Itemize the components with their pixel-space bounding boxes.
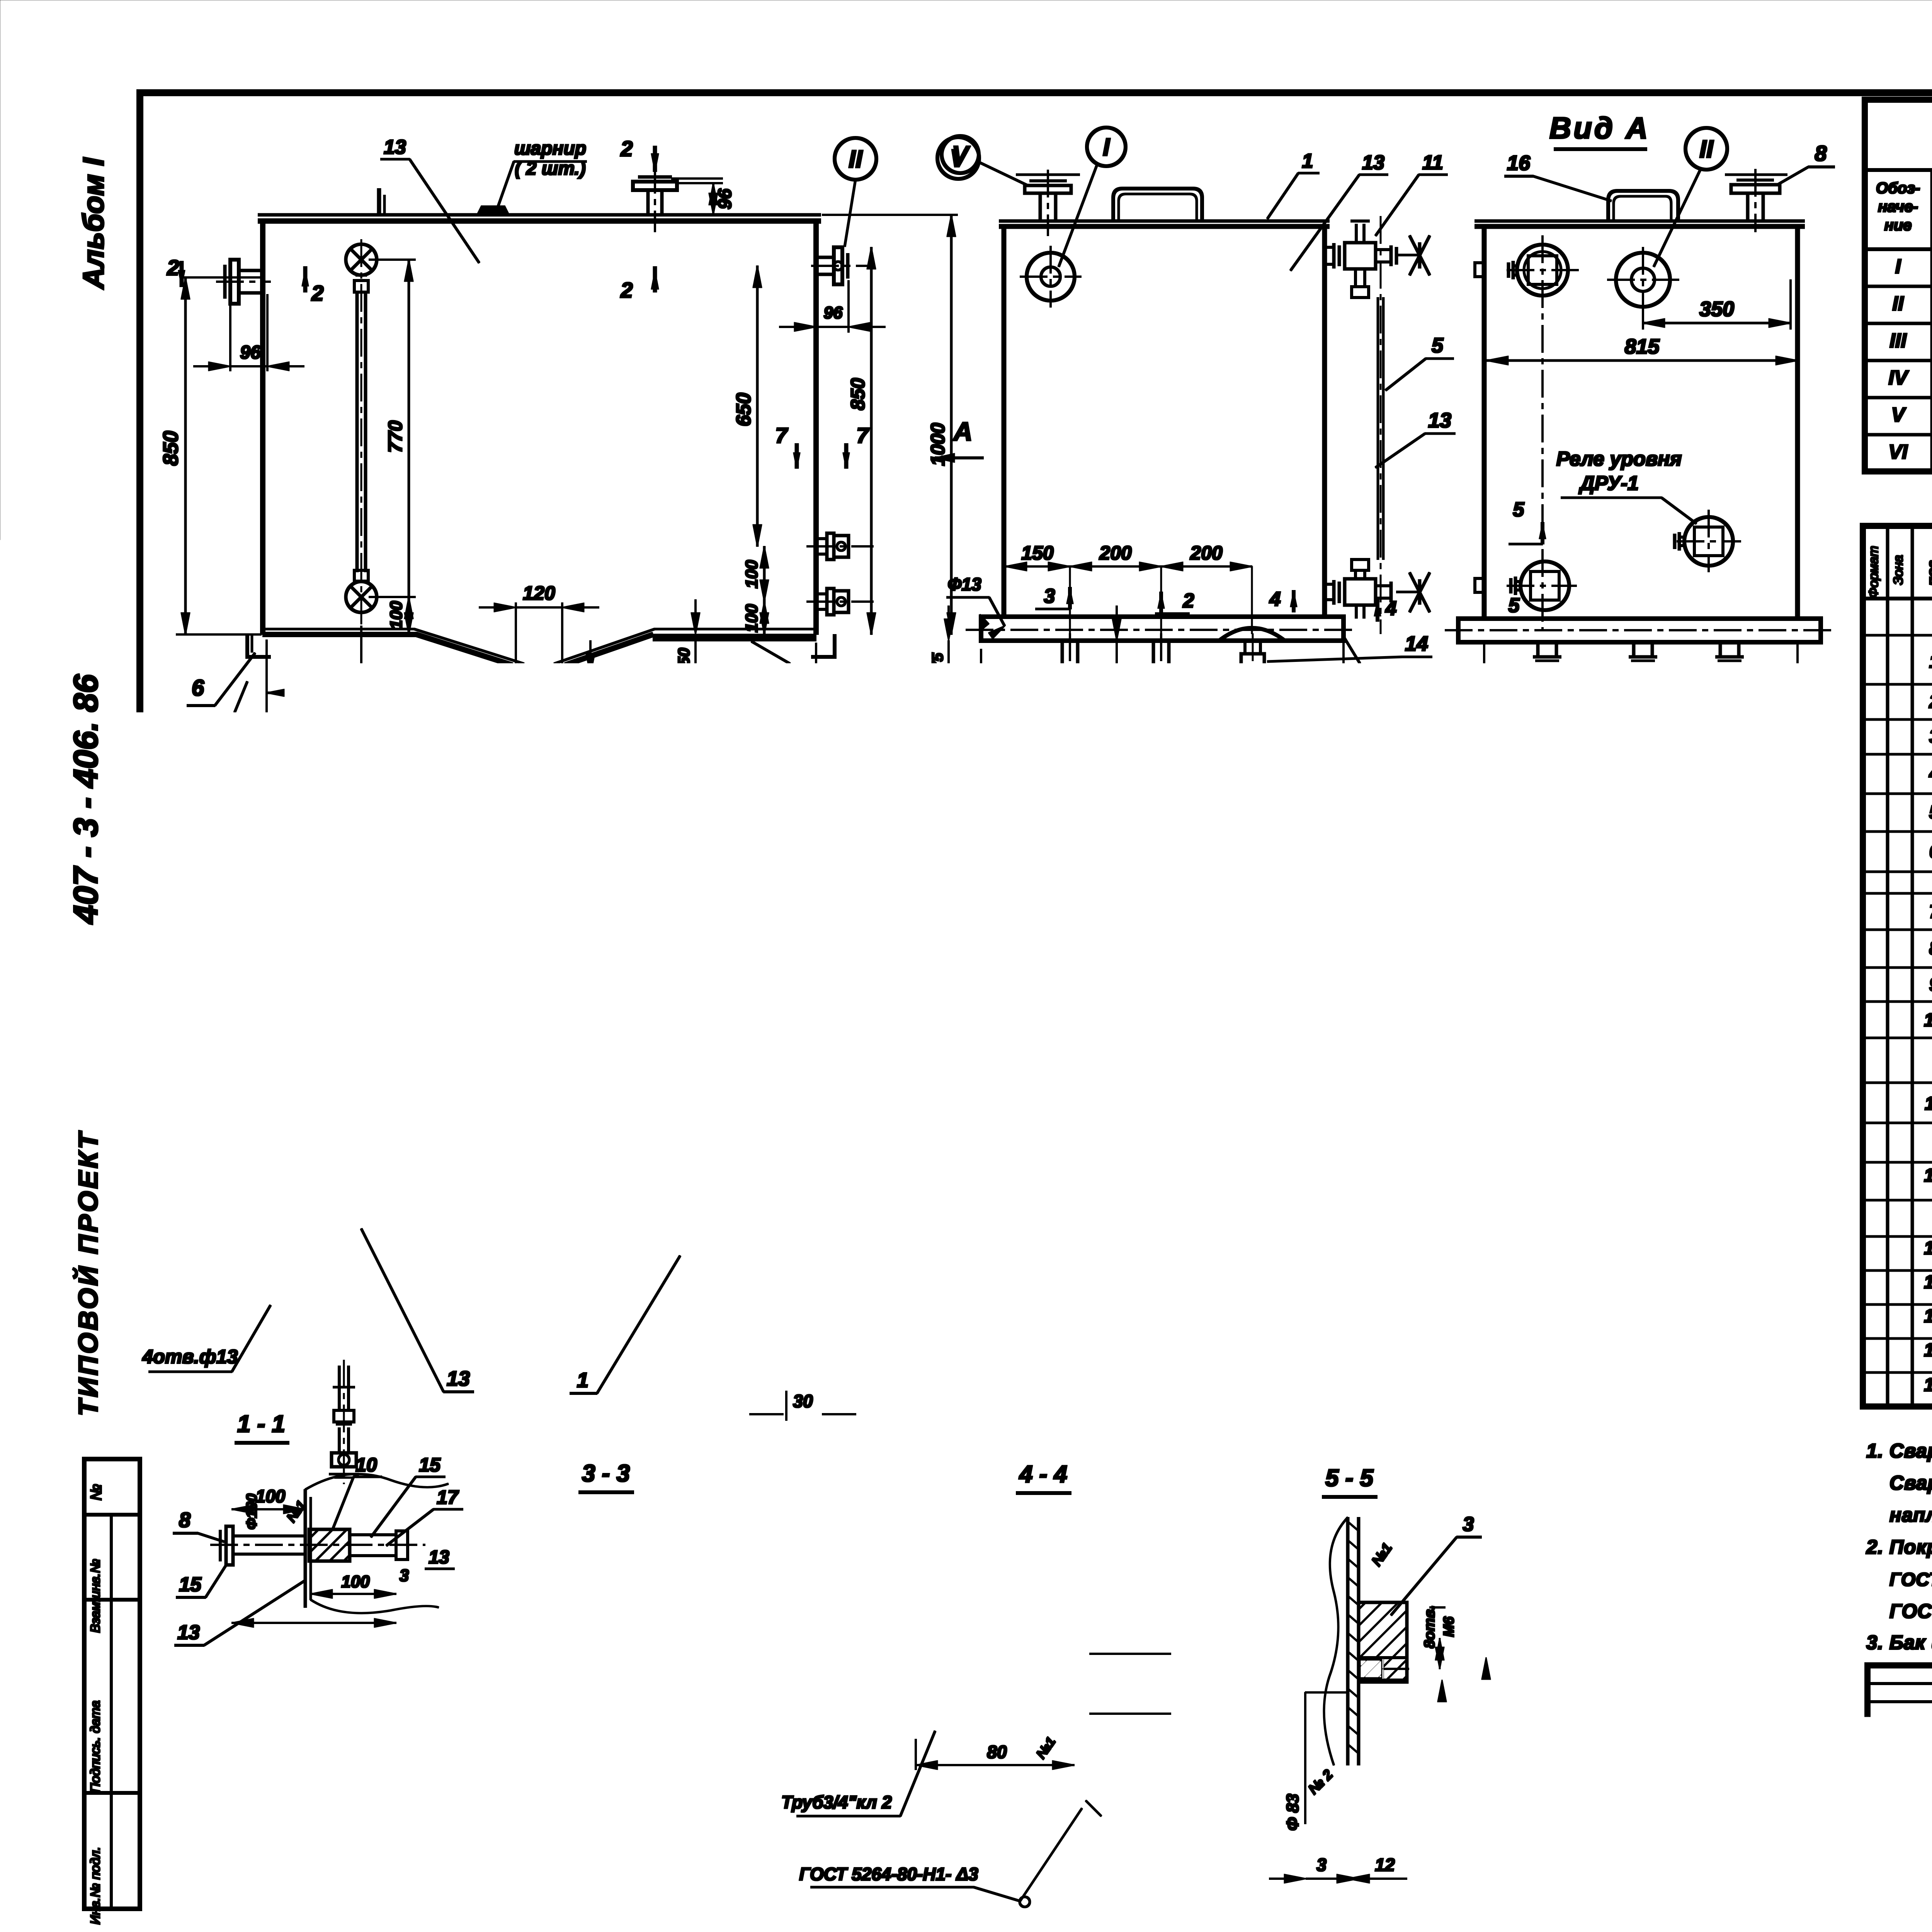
- svg-text:Труб3/4"кл 2: Труб3/4"кл 2: [781, 1792, 892, 1812]
- section 3-3 lower pipe: [633, 1787, 635, 1859]
- margin stamp column: [84, 1459, 140, 1909]
- section 7-7 angle: [1121, 1252, 1124, 1337]
- side view support 1: [1061, 641, 1064, 675]
- section 6-6 plate: [1008, 1042, 1222, 1045]
- svg-text:350: 350: [714, 1008, 747, 1030]
- svg-text:3. Бак испытать на герметич: 3. Бак испытать на герметичность керосин…: [1866, 1631, 1932, 1653]
- dim 100 gauge bottom: [369, 596, 415, 598]
- section 1-1 flange pipe: [232, 1535, 305, 1537]
- plan view inner hatch rect: [369, 1041, 415, 1134]
- svg-text:110: 110: [587, 681, 607, 710]
- label circled II view A: [1685, 128, 1727, 170]
- svg-text:920: 920: [889, 1071, 910, 1101]
- svg-text:870: 870: [858, 1067, 878, 1097]
- section 1-1 coupling: [309, 1529, 350, 1561]
- label 25 base right: [1343, 643, 1344, 757]
- svg-text:Н.контр.: Н.контр.: [1873, 1773, 1932, 1790]
- svg-text:4: 4: [1929, 764, 1932, 784]
- svg-text:11: 11: [1925, 1094, 1932, 1114]
- privyazan table: [1582, 1768, 1867, 1905]
- svg-text:III: III: [1889, 330, 1907, 352]
- svg-text:7 - 7: 7 - 7: [1082, 1173, 1131, 1200]
- svg-text:Реле уровня: Реле уровня: [1556, 448, 1682, 470]
- svg-text:350: 350: [1699, 298, 1734, 321]
- svg-text:190: 190: [459, 666, 495, 690]
- section 3-3 blob outline: [479, 1648, 746, 1793]
- svg-text:640: 640: [1526, 1063, 1557, 1083]
- svg-text:14: 14: [1405, 632, 1428, 655]
- svg-text:2. Покрытие поверхностей: вн: 2. Покрытие поверхностей: внутренних - б…: [1866, 1536, 1932, 1558]
- plan view breather circles: [624, 949, 674, 998]
- svg-text:б: б: [1423, 731, 1437, 756]
- svg-text:9: 9: [795, 1623, 806, 1645]
- svg-text:1: 1: [144, 991, 155, 1013]
- svg-text:14: 14: [607, 1876, 630, 1899]
- view A bottom dims: [1483, 645, 1485, 718]
- view A top handle: [1608, 191, 1678, 221]
- svg-text:Вид А: Вид А: [1549, 111, 1650, 145]
- plan view lid rectangle: [269, 920, 819, 1366]
- svg-text:3: 3: [1221, 1063, 1238, 1071]
- svg-text:850: 850: [159, 431, 182, 466]
- svg-text:Взам.инв.№: Взам.инв.№: [88, 1559, 103, 1633]
- svg-text:ДЕТАЛЬ поз.2: ДЕТАЛЬ поз.2: [1472, 795, 1653, 821]
- svg-text:40: 40: [1440, 1029, 1459, 1047]
- svg-text:10: 10: [355, 1454, 377, 1476]
- plan view dim 30: [786, 1413, 819, 1415]
- svg-text:75: 75: [789, 1811, 808, 1830]
- svg-text:8: 8: [1929, 938, 1932, 959]
- section 3-3 bottom flange: [591, 1857, 696, 1860]
- svg-text:3: 3: [282, 1884, 291, 1901]
- svg-text:ДРУ-1: ДРУ-1: [1578, 472, 1639, 495]
- svg-text:Ф 115: Ф 115: [1504, 1818, 1523, 1864]
- svg-text:30: 30: [793, 1391, 813, 1411]
- svg-text:I: I: [170, 831, 178, 859]
- svg-text:5: 5: [1929, 802, 1932, 823]
- section mark 2-2 top: [653, 146, 657, 172]
- svg-text:Ф 83: Ф 83: [1283, 1794, 1302, 1831]
- svg-text:7: 7: [775, 423, 788, 447]
- dim 110 drain: [545, 675, 597, 676]
- svg-text:200: 200: [1099, 542, 1132, 564]
- svg-text:3: 3: [266, 1867, 275, 1886]
- front view right flange II stub: [816, 256, 834, 259]
- svg-text:9: 9: [1929, 975, 1932, 995]
- svg-text:ДЕТАЛЬ поз.1: ДЕТАЛЬ поз.1: [1434, 1107, 1615, 1133]
- svg-text:3: 3: [1044, 585, 1055, 607]
- detail pos 2 dims: [1617, 894, 1647, 895]
- front view right lower fitting 2: [816, 593, 827, 595]
- svg-text:120: 120: [523, 582, 555, 604]
- svg-text:100: 100: [552, 944, 570, 971]
- label circled II top right: [835, 138, 876, 180]
- front view left corner angle p6: [247, 634, 270, 657]
- svg-text:60: 60: [1388, 1378, 1406, 1396]
- svg-text:I: I: [1895, 255, 1901, 278]
- svg-text:3: 3: [1221, 1038, 1238, 1047]
- svg-text:ГИП тех.: ГИП тех.: [1873, 1823, 1932, 1840]
- svg-text:1: 1: [577, 1369, 588, 1392]
- side view dim row 150 200 200: [1005, 566, 1252, 567]
- side view gauge valve top p11: [1325, 246, 1334, 248]
- svg-text:ГИП: ГИП: [1873, 1798, 1905, 1815]
- svg-text:450: 450: [366, 1003, 399, 1025]
- flange table grid: [1865, 168, 1932, 172]
- svg-text:7: 7: [856, 423, 869, 447]
- side view drain needle valve: [1245, 641, 1260, 654]
- title block signature grid: [1867, 1682, 1932, 1685]
- svg-text:15: 15: [419, 1454, 441, 1476]
- svg-text:6: 6: [1929, 842, 1932, 862]
- svg-text:100: 100: [256, 1714, 286, 1734]
- svg-text:130: 130: [370, 1065, 388, 1092]
- dim 350 view A: [1642, 309, 1644, 329]
- svg-text:Альбом I: Альбом I: [77, 157, 110, 290]
- svg-text:2: 2: [620, 136, 633, 161]
- label circled I side view: [1087, 128, 1126, 166]
- front view tank outline: [258, 214, 821, 216]
- view A level relay circle: [1684, 517, 1733, 566]
- view A tank outline: [1475, 220, 1804, 223]
- svg-text:12: 12: [1375, 1855, 1395, 1875]
- section 2-2 wall: [285, 1719, 287, 1882]
- plan view dim 350 breather: [649, 1032, 811, 1034]
- svg-text:6: 6: [192, 675, 204, 701]
- svg-text:16: 16: [1924, 1340, 1932, 1361]
- svg-text:шарнир: шарнир: [514, 138, 586, 159]
- plan view left flange: [232, 965, 269, 967]
- svg-text:3 - 3: 3 - 3: [582, 1460, 630, 1487]
- svg-text:Гл.спец.: Гл.спец.: [1873, 1748, 1932, 1765]
- svg-text:815: 815: [1624, 335, 1660, 358]
- side view drain dome: [1219, 628, 1285, 641]
- svg-text:100: 100: [742, 560, 761, 588]
- svg-text:A: A: [952, 417, 972, 446]
- section 3-3 dims right: [738, 1657, 819, 1658]
- dim 815 view A: [1486, 360, 1798, 362]
- svg-text:4: 4: [1385, 597, 1397, 620]
- svg-text:96: 96: [240, 342, 261, 363]
- section 5-5 boss block: [1359, 1602, 1407, 1682]
- plan view right fittings: [819, 997, 842, 1019]
- section 3-3 strainer pipe: [626, 1658, 657, 1708]
- svg-text:ТИПОВОЙ ПРОЕКТ: ТИПОВОЙ ПРОЕКТ: [72, 1130, 103, 1416]
- plan view dims inside door: [317, 1027, 448, 1029]
- label circled V side view: [942, 136, 979, 173]
- svg-text:S =3мм: S =3мм: [1342, 900, 1408, 921]
- parts table header: [1863, 597, 1932, 600]
- front view bottom drain: [511, 678, 584, 680]
- plan view corner lugs: [269, 898, 294, 920]
- dim 50 right dip: [695, 634, 696, 672]
- svg-text:25: 25: [847, 879, 866, 898]
- svg-text:3: 3: [1057, 1513, 1068, 1536]
- svg-text:96: 96: [715, 189, 735, 209]
- svg-text:наплывов и перерывов.: наплывов и перерывов.: [1889, 1504, 1932, 1526]
- dim 850 right: [871, 247, 872, 634]
- section 3-3 coupling: [621, 1716, 662, 1750]
- svg-text:350: 350: [1617, 1162, 1648, 1183]
- section 6-6 bottom dims: [1007, 1061, 1009, 1096]
- svg-text:500: 500: [1646, 928, 1666, 957]
- svg-text:407 - 3 - 406. 86: 407 - 3 - 406. 86: [66, 674, 105, 925]
- svg-text:Нач.отд.: Нач.отд.: [1873, 1723, 1932, 1740]
- plan view door hinges: [490, 997, 512, 1022]
- svg-text:40: 40: [1622, 1029, 1641, 1047]
- svg-text:580: 580: [1526, 1008, 1557, 1028]
- svg-text:I: I: [1103, 133, 1110, 161]
- svg-text:3: 3: [473, 1759, 492, 1768]
- svg-text:Обоз-: Обоз-: [1876, 180, 1920, 197]
- svg-text:100: 100: [256, 1486, 286, 1506]
- section 3-3 lid plate: [475, 1776, 734, 1779]
- svg-text:13: 13: [447, 1367, 470, 1390]
- svg-text:100: 100: [160, 922, 178, 949]
- svg-text:5: 5: [1513, 498, 1525, 521]
- side view base channel: [981, 617, 1344, 641]
- svg-text:11: 11: [1422, 151, 1443, 174]
- svg-text:300: 300: [1071, 1104, 1101, 1124]
- svg-text:420: 420: [1615, 928, 1635, 958]
- svg-text:13: 13: [643, 1623, 665, 1645]
- dim 96 left flange: [230, 305, 231, 371]
- svg-text:Ф 46: Ф 46: [1517, 1165, 1560, 1187]
- svg-text:7: 7: [1929, 902, 1932, 922]
- svg-text:5 - 5: 5 - 5: [1325, 1465, 1374, 1492]
- svg-text:40: 40: [789, 1740, 808, 1759]
- section 3-3 F100: [591, 1831, 734, 1832]
- svg-text:Ф 95: Ф 95: [1464, 1827, 1483, 1864]
- svg-text:200: 200: [1190, 542, 1223, 564]
- svg-text:Зона: Зона: [1891, 555, 1906, 585]
- svg-text:150: 150: [1021, 542, 1054, 564]
- svg-text:5: 5: [290, 1867, 299, 1886]
- plan view dashed tank wall: [282, 928, 807, 1357]
- view A lower left flange circle: [1520, 561, 1569, 610]
- svg-text:96: 96: [1096, 675, 1114, 694]
- dim 120 drain: [515, 603, 517, 668]
- svg-text:IV: IV: [1888, 367, 1909, 389]
- section 3-3 dim 70: [560, 1716, 561, 1777]
- svg-text:100: 100: [1687, 1207, 1706, 1235]
- parts table columns: [1886, 526, 1889, 1406]
- svg-text:3: 3: [1929, 726, 1932, 747]
- svg-text:150: 150: [1670, 686, 1703, 709]
- svg-text:Инв. №: Инв. №: [1589, 1885, 1651, 1904]
- parts table frame: [1863, 526, 1932, 1406]
- svg-text:16: 16: [1507, 151, 1531, 175]
- svg-text:V: V: [952, 141, 971, 168]
- side view flange circle I: [1027, 253, 1075, 301]
- title block frame: [1867, 1665, 1932, 1905]
- section 2-2 coupling: [255, 1774, 286, 1804]
- svg-text:815: 815: [523, 1094, 543, 1124]
- svg-text:Ф 34: Ф 34: [1105, 1655, 1124, 1692]
- svg-text:15: 15: [179, 1573, 202, 1596]
- svg-text:8: 8: [1815, 141, 1827, 165]
- level gauge: [346, 244, 377, 275]
- front view bottom dims: [266, 640, 267, 808]
- svg-text:6 - 6: 6 - 6: [1089, 876, 1137, 903]
- svg-text:Привязан: Привязан: [1596, 1784, 1685, 1805]
- svg-text:770: 770: [384, 420, 406, 453]
- section 4-4 pipe: [949, 1649, 1074, 1652]
- svg-text:13: 13: [849, 671, 873, 696]
- svg-text:15: 15: [1924, 1306, 1932, 1327]
- svg-text:2 - 2: 2 - 2: [235, 1659, 284, 1685]
- svg-text:ГОСТ 14923-78, серозеленый Ф: ГОСТ 14923-78, серозеленый ФНП.: [1889, 1600, 1932, 1622]
- svg-text:V: V: [689, 881, 708, 909]
- svg-text:6: 6: [433, 1050, 444, 1073]
- label circled V top right corner: [937, 137, 979, 179]
- svg-text:8отв.: 8отв.: [1422, 1605, 1438, 1648]
- svg-text:VI: VI: [1888, 441, 1908, 463]
- svg-text:1300: 1300: [512, 769, 562, 794]
- svg-text:Ф 100: Ф 100: [1143, 1656, 1163, 1705]
- label circled VI: [1371, 672, 1412, 712]
- svg-text:100: 100: [387, 601, 406, 629]
- svg-text:3: 3: [1150, 1317, 1167, 1326]
- side view flange V top left: [1039, 193, 1042, 221]
- svg-text:170: 170: [333, 1120, 363, 1140]
- svg-text:1315: 1315: [1502, 1410, 1545, 1432]
- svg-text:13: 13: [1362, 151, 1384, 174]
- svg-text:3: 3: [400, 1566, 409, 1585]
- svg-text:200: 200: [397, 1068, 416, 1097]
- svg-text:15: 15: [179, 1838, 202, 1861]
- svg-text:460: 460: [1442, 1376, 1472, 1396]
- svg-text:13: 13: [997, 1331, 1019, 1353]
- svg-text:V: V: [1891, 404, 1906, 426]
- svg-text:12: 12: [1924, 1165, 1932, 1186]
- dim 96 support: [1116, 641, 1117, 681]
- svg-text:№: №: [88, 1484, 105, 1500]
- svg-text:Ф 100: Ф 100: [674, 1808, 723, 1828]
- svg-text:13: 13: [997, 1513, 1019, 1536]
- svg-text:2: 2: [167, 255, 179, 280]
- label circled II plan: [900, 1159, 940, 1199]
- section 6-6 dims: [1007, 1002, 1009, 1040]
- svg-text:Ф100: Ф100: [310, 1780, 327, 1818]
- svg-text:2: 2: [1183, 590, 1194, 612]
- detail pos 1 plate: [1384, 1203, 1662, 1373]
- front view top stub pin: [378, 189, 381, 215]
- svg-text:96: 96: [824, 303, 843, 322]
- svg-text:13: 13: [1924, 1238, 1932, 1259]
- svg-text:8: 8: [179, 1756, 190, 1779]
- svg-text:13: 13: [978, 1022, 1000, 1044]
- svg-text:200: 200: [296, 666, 332, 690]
- svg-text:Инв.№ подл.: Инв.№ подл.: [88, 1847, 103, 1925]
- svg-text:75: 75: [929, 653, 946, 670]
- label circled I bottom left: [152, 838, 194, 879]
- plan view drain below: [338, 1366, 340, 1410]
- side view top handle: [1113, 189, 1202, 221]
- view A flange 8: [1747, 193, 1749, 221]
- svg-text:Подпись. дата: Подпись. дата: [88, 1701, 103, 1793]
- dim 75 left base: [948, 641, 949, 681]
- svg-text:II: II: [1699, 135, 1714, 163]
- detail pos 1 dims: [1332, 1202, 1381, 1204]
- svg-text:17: 17: [437, 1486, 459, 1508]
- section 2-2 flange pipe: [240, 1776, 286, 1779]
- svg-text:1: 1: [344, 974, 355, 996]
- svg-text:ГОСТ 5264-80-Н1- Δ3: ГОСТ 5264-80-Н1- Δ3: [799, 1864, 978, 1884]
- svg-text:13: 13: [837, 1647, 860, 1669]
- svg-text:920: 920: [1140, 758, 1175, 781]
- front view hinge: [478, 207, 508, 215]
- section 5-5 wall: [1347, 1517, 1349, 1765]
- dim 96 right flange: [815, 284, 817, 332]
- svg-text:5: 5: [1432, 334, 1444, 357]
- svg-text:13: 13: [1145, 1237, 1167, 1260]
- svg-text:13: 13: [225, 1702, 248, 1725]
- svg-text:90: 90: [789, 1680, 808, 1699]
- view A feet: [1538, 642, 1556, 657]
- section marks 7-7: [795, 444, 799, 468]
- svg-text:2: 2: [1929, 692, 1932, 712]
- svg-text:4: 4: [917, 1517, 929, 1539]
- dim 650 right: [757, 266, 759, 546]
- svg-text:25: 25: [1354, 730, 1378, 753]
- side view gauge valve bottom: [1352, 560, 1369, 570]
- svg-text:850: 850: [847, 378, 869, 410]
- svg-text:2: 2: [1188, 993, 1200, 1016]
- svg-text:650: 650: [733, 393, 755, 427]
- svg-text:5: 5: [1509, 594, 1520, 617]
- svg-text:Ф100: Ф100: [244, 1493, 260, 1529]
- svg-text:ГОСТ 901-78, красноватый ШХ.: ГОСТ 901-78, красноватый ШХ. К. ; наружн…: [1889, 1570, 1932, 1590]
- svg-text:М6: М6: [1441, 1616, 1457, 1637]
- svg-text:Ф13: Ф13: [947, 574, 981, 594]
- svg-text:II: II: [913, 1165, 927, 1193]
- front view tank bottom profile: [263, 634, 653, 672]
- svg-text:Ф 80: Ф 80: [1420, 1827, 1439, 1864]
- svg-text:100: 100: [742, 604, 761, 633]
- svg-text:Формат: Формат: [1866, 546, 1881, 598]
- dim 96 top flange: [677, 182, 723, 184]
- svg-text:70: 70: [539, 1737, 558, 1756]
- svg-text:4отв.ф13: 4отв.ф13: [142, 1346, 238, 1367]
- svg-text:13: 13: [429, 1547, 449, 1568]
- view A base channel: [1458, 619, 1821, 642]
- svg-text:ГОСТ5264-80-Т1-Δ3: ГОСТ5264-80-Т1-Δ3: [423, 1830, 568, 1847]
- svg-text:2: 2: [1187, 726, 1198, 748]
- front view left flange: [239, 269, 263, 272]
- side view tank outline: [999, 220, 1329, 223]
- dim 850 left: [182, 277, 261, 278]
- svg-text:3: 3: [1150, 1345, 1167, 1354]
- svg-text:50: 50: [675, 648, 693, 666]
- svg-text:3: 3: [1463, 1513, 1474, 1536]
- svg-text:6: 6: [553, 1049, 564, 1071]
- detail pos 2 square: [1469, 882, 1614, 1003]
- svg-text:40: 40: [1169, 1074, 1188, 1092]
- svg-text:600: 600: [1361, 1272, 1381, 1301]
- svg-text:наче-: наче-: [1878, 198, 1918, 215]
- svg-text:поз.: поз.: [1925, 556, 1932, 586]
- svg-text:400: 400: [321, 692, 358, 717]
- svg-text:II: II: [849, 145, 863, 173]
- svg-text:2: 2: [620, 278, 633, 302]
- dims 100 100 right: [764, 546, 765, 602]
- svg-text:17: 17: [528, 1624, 551, 1647]
- side view bottom dims: [1004, 692, 1006, 753]
- svg-text:8: 8: [179, 1509, 190, 1532]
- svg-text:28: 28: [967, 1594, 988, 1614]
- plan view hatch door: [294, 945, 506, 1343]
